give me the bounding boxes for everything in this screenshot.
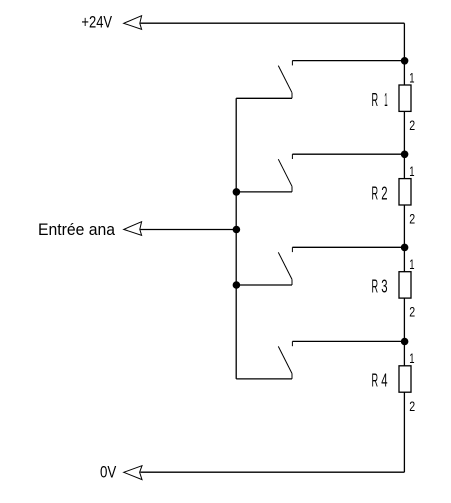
node bus S2 xyxy=(233,188,241,196)
svg-text:1: 1 xyxy=(409,70,414,85)
svg-text:2: 2 xyxy=(381,184,387,204)
svg-text:R: R xyxy=(372,184,379,204)
arrow Entrée ana xyxy=(124,222,142,236)
wire 0V bottom xyxy=(140,471,404,473)
node rail R3 top xyxy=(401,244,409,252)
svg-text:Entrée ana: Entrée ana xyxy=(38,220,115,239)
svg-text:2: 2 xyxy=(409,305,415,320)
arrow +24V xyxy=(124,16,142,30)
switch S2 xyxy=(278,154,292,192)
node rail R2 top xyxy=(401,151,409,159)
switch S4 xyxy=(278,341,292,379)
svg-text:2: 2 xyxy=(409,399,415,414)
wire +24V top rail xyxy=(140,22,404,24)
svg-text:0V: 0V xyxy=(100,463,117,482)
resistor R3 xyxy=(399,272,411,298)
svg-text:R: R xyxy=(372,277,379,297)
switch S3 xyxy=(278,247,292,285)
wire Entrée ana to bus xyxy=(140,229,236,231)
node bus S3 xyxy=(233,281,241,289)
svg-text:2: 2 xyxy=(409,118,415,133)
resistor R2 xyxy=(399,179,411,205)
wire switch S4 to rail xyxy=(292,340,404,342)
resistor R4 xyxy=(399,366,411,392)
svg-text:+24V: +24V xyxy=(81,12,112,31)
wire left bus vertical xyxy=(235,98,237,379)
arrow 0V xyxy=(124,466,142,480)
switch S1 xyxy=(278,61,292,99)
svg-text:R: R xyxy=(372,90,379,110)
wire switch S3 to rail xyxy=(292,246,404,248)
wire switch S2 to rail xyxy=(292,153,404,155)
wire switch S1 to rail xyxy=(292,60,404,62)
wire right rail vertical xyxy=(403,23,405,472)
svg-text:1: 1 xyxy=(409,351,414,366)
label R1 xyxy=(372,90,388,110)
node rail R4 top xyxy=(401,338,409,346)
node rail R1 top xyxy=(401,57,409,65)
label R4 xyxy=(372,371,388,391)
svg-text:1: 1 xyxy=(384,90,387,110)
node bus Entrée ana xyxy=(233,226,241,234)
label R2 xyxy=(372,184,388,204)
svg-text:3: 3 xyxy=(381,277,387,297)
svg-text:1: 1 xyxy=(409,164,414,179)
resistor R1 xyxy=(399,85,411,111)
wire switch S4 to bus xyxy=(236,378,292,380)
label R3 xyxy=(372,277,388,297)
wire switch S2 to bus xyxy=(236,191,292,193)
wire switch S3 to bus xyxy=(236,284,292,286)
wire switch S1 to bus xyxy=(236,97,292,99)
svg-text:4: 4 xyxy=(381,371,387,391)
svg-text:2: 2 xyxy=(409,212,415,227)
svg-text:R: R xyxy=(372,371,379,391)
svg-text:1: 1 xyxy=(409,257,414,272)
